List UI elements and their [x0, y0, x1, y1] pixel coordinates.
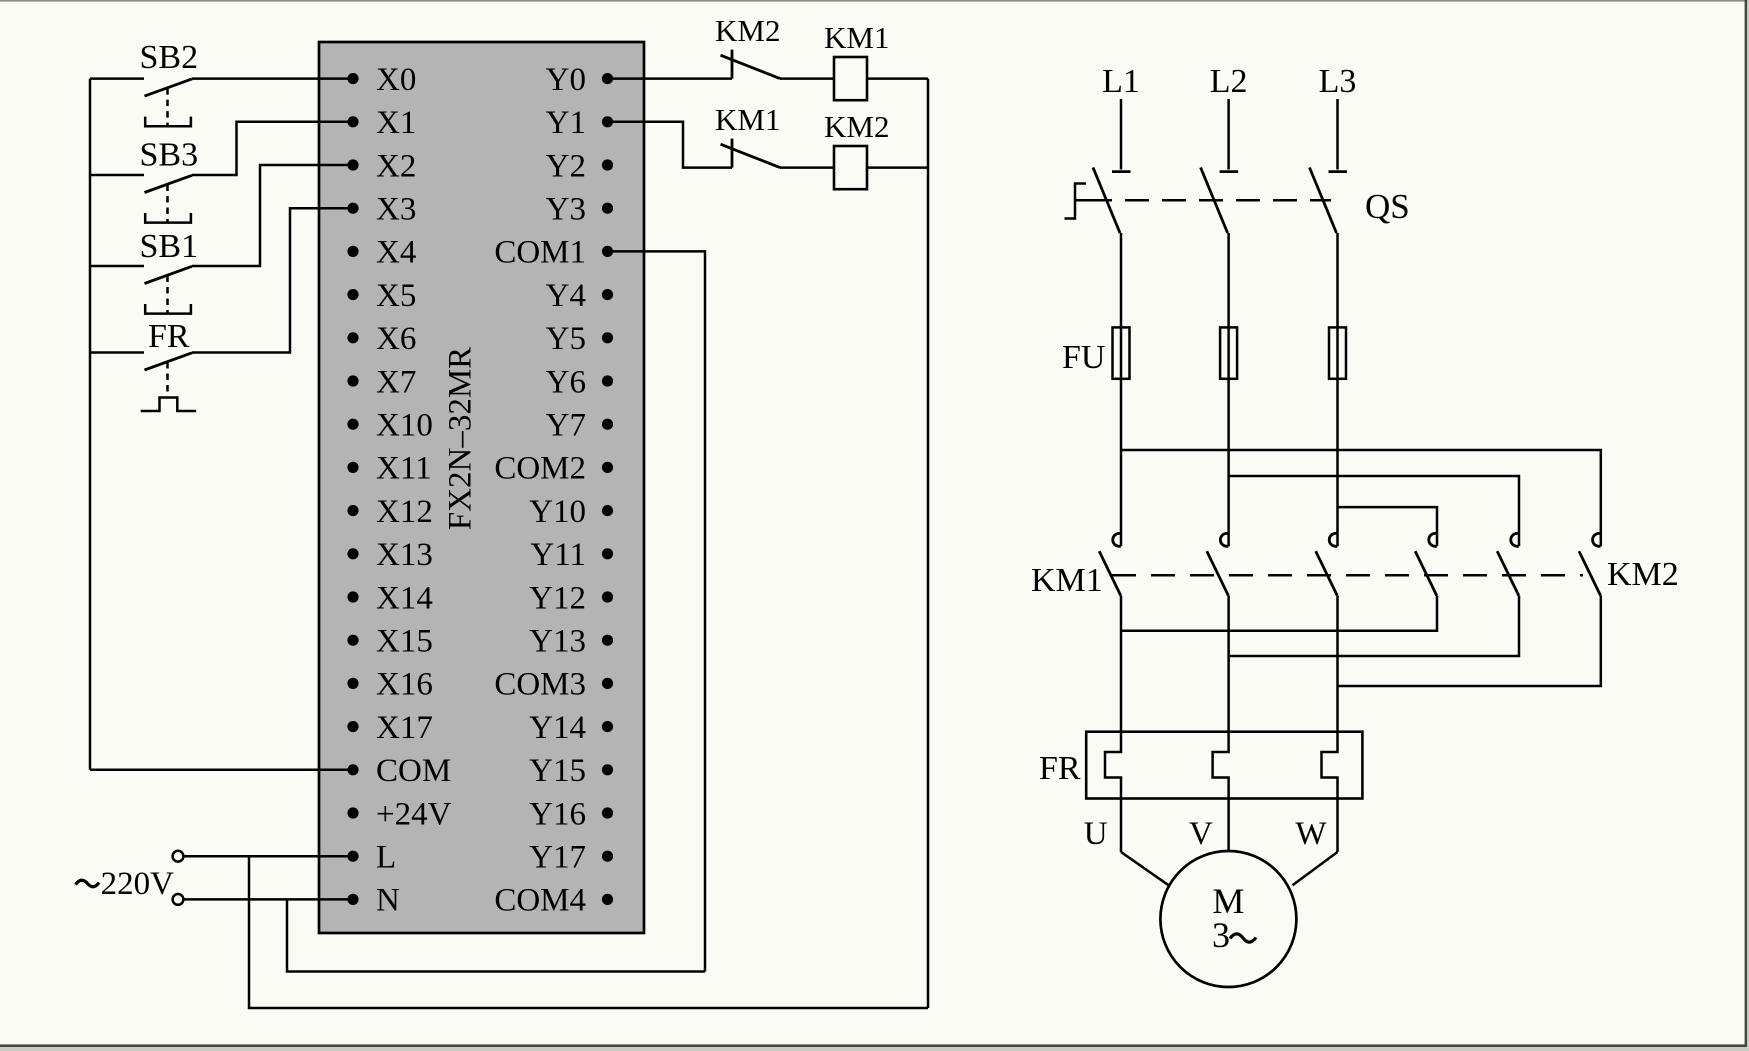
PLC input pin COM	[347, 764, 358, 775]
svg-text:X16: X16	[376, 667, 433, 703]
pushbutton SB3 (NO)	[90, 174, 144, 177]
PLC input pin X13	[347, 548, 358, 559]
svg-text:X2: X2	[376, 148, 416, 184]
svg-text:FR: FR	[1039, 750, 1081, 787]
PLC input pin X6	[347, 332, 358, 343]
right gray strip	[1747, 0, 1749, 1047]
svg-text:FR: FR	[148, 318, 190, 355]
wire FR to X3	[192, 208, 353, 352]
svg-text:Y1: Y1	[546, 105, 586, 141]
wire N branch down	[287, 899, 705, 971]
svg-text:Y4: Y4	[546, 278, 586, 314]
wire Y0 to KM2 contact	[608, 77, 733, 80]
svg-text:Y15: Y15	[529, 753, 586, 789]
wire L2 to KM2 pole2	[1229, 476, 1519, 546]
wire KM2 pole 1 to phase column	[1121, 596, 1437, 631]
fuse FU pole 2	[1220, 327, 1237, 378]
svg-text:L: L	[376, 840, 396, 876]
contactor KM2 main contact pole 3	[1593, 533, 1601, 546]
PLC output pin Y17	[602, 851, 613, 862]
supply terminal upper	[173, 851, 184, 862]
svg-text:X10: X10	[376, 408, 433, 444]
svg-text:Y16: Y16	[529, 796, 586, 832]
svg-text:KM1: KM1	[824, 20, 889, 55]
wire U to motor	[1121, 852, 1169, 885]
wire KM1 coil to right rail	[867, 77, 928, 80]
PLC output pin Y1	[602, 116, 613, 127]
wire phase 2 through FR heater	[1213, 596, 1229, 852]
right rail wire down to L rail	[927, 79, 930, 1008]
svg-text:L2: L2	[1210, 63, 1248, 100]
left vertical bus wire	[89, 79, 92, 770]
PLC output pin Y0	[602, 73, 613, 84]
svg-text:KM2: KM2	[715, 13, 780, 48]
contact KM2 (NC) in Y0 line	[731, 50, 734, 79]
wire phase 1 through FR heater	[1105, 596, 1121, 853]
contactor KM1 main contact pole 2	[1220, 533, 1228, 546]
wire L terminal to PLC L	[183, 855, 353, 858]
wire L1 to KM2 pole3	[1121, 450, 1601, 546]
bottom gray strip	[0, 1047, 1749, 1051]
svg-text:X11: X11	[376, 451, 432, 487]
switch QS linkage (dashed)	[1075, 199, 1112, 202]
PLC input pin +24V	[347, 807, 358, 818]
svg-text:X3: X3	[376, 192, 416, 228]
PLC input pin X3	[347, 203, 358, 214]
wire KM2 contact to KM1 coil	[780, 77, 834, 80]
PLC FX2N-32MR body	[319, 42, 644, 933]
svg-text:X14: X14	[376, 580, 433, 616]
svg-text:COM4: COM4	[494, 883, 586, 919]
wire KM2 pole 2 to phase column	[1229, 596, 1519, 657]
svg-text:COM3: COM3	[494, 667, 586, 703]
svg-text:FX2N–32MR: FX2N–32MR	[443, 347, 479, 530]
svg-text:SB3: SB3	[140, 137, 199, 174]
supply terminal lower	[173, 894, 184, 905]
PLC input pin L	[347, 851, 358, 862]
pushbutton SB2 (NO)	[90, 77, 144, 80]
svg-text:Y3: Y3	[546, 192, 586, 228]
svg-text:Y10: Y10	[529, 494, 586, 530]
svg-text:X17: X17	[376, 710, 433, 746]
contactor KM1 main contact pole 3	[1329, 533, 1337, 546]
PLC output pin COM1	[602, 246, 613, 257]
phase L1 incoming wire	[1120, 99, 1123, 170]
switch QS pole 2 blade	[1201, 168, 1228, 234]
PLC output pin Y12	[602, 591, 613, 602]
switch QS pole 1 blade	[1093, 168, 1120, 234]
svg-text:KM2: KM2	[824, 109, 889, 144]
wire Y1 to KM1 contact	[608, 122, 733, 168]
wire SB1 to X2	[192, 165, 353, 266]
pushbutton SB1 (NO)	[90, 265, 144, 268]
svg-text:U: U	[1084, 816, 1108, 852]
svg-text:Y0: Y0	[546, 62, 586, 98]
PLC input pin X10	[347, 419, 358, 430]
wire phase 3 through FR heater	[1322, 596, 1338, 853]
svg-text:Y11: Y11	[530, 537, 586, 573]
svg-text:KM1: KM1	[1031, 562, 1103, 599]
bottom border line	[0, 1044, 1747, 1047]
top border line	[0, 0, 1749, 2]
svg-text:Y7: Y7	[546, 408, 586, 444]
PLC input pin X2	[347, 159, 358, 170]
PLC input pin N	[347, 894, 358, 905]
PLC input pin X15	[347, 635, 358, 646]
right border line	[1745, 0, 1748, 1047]
svg-text:X5: X5	[376, 278, 416, 314]
svg-text:X0: X0	[376, 62, 416, 98]
wire KM2 coil to right rail	[867, 166, 928, 169]
svg-text:L3: L3	[1319, 63, 1357, 100]
svg-text:X13: X13	[376, 537, 433, 573]
PLC output pin Y10	[602, 505, 613, 516]
svg-text:FU: FU	[1062, 339, 1105, 376]
wire COM1 down to N rail	[608, 251, 706, 971]
PLC output pin Y5	[602, 332, 613, 343]
svg-text:X15: X15	[376, 624, 433, 660]
PLC output pin Y7	[602, 419, 613, 430]
svg-text:Y14: Y14	[529, 710, 586, 746]
PLC input pin X1	[347, 116, 358, 127]
svg-text:3: 3	[1212, 915, 1230, 955]
wire KM1 contact to KM2 coil	[780, 166, 834, 169]
coil KM1	[834, 57, 867, 100]
svg-text:W: W	[1295, 816, 1327, 852]
svg-text:COM2: COM2	[494, 451, 586, 487]
svg-text:X12: X12	[376, 494, 433, 530]
PLC input pin X12	[347, 505, 358, 516]
svg-text:V: V	[1189, 816, 1213, 852]
wire SB2 to X0	[192, 77, 353, 80]
svg-text:L1: L1	[1102, 63, 1140, 100]
phase wire 1 QS to KM1 contact	[1120, 233, 1123, 546]
PLC output pin COM4	[602, 894, 613, 905]
svg-text:SB2: SB2	[140, 39, 199, 76]
svg-text:SB1: SB1	[140, 228, 199, 265]
wire N terminal to PLC N	[183, 898, 353, 901]
svg-text:COM: COM	[376, 753, 451, 789]
phase L2 incoming wire	[1227, 99, 1230, 170]
svg-text:N: N	[376, 883, 400, 919]
wire W to motor	[1293, 852, 1338, 885]
wire KM2 pole 3 to phase column	[1338, 596, 1601, 687]
PLC input pin X0	[347, 73, 358, 84]
svg-text:KM1: KM1	[715, 102, 780, 137]
phase L3 incoming wire	[1336, 99, 1339, 170]
wire SB3 to X1	[192, 122, 353, 175]
PLC output pin Y16	[602, 807, 613, 818]
svg-text:Y17: Y17	[529, 840, 586, 876]
wire L3 to KM2 pole1	[1338, 507, 1438, 546]
svg-text:220V: 220V	[101, 866, 175, 902]
PLC output pin COM2	[602, 462, 613, 473]
PLC input pin X11	[347, 462, 358, 473]
svg-text:X4: X4	[376, 235, 416, 271]
fuse FU pole 1	[1113, 327, 1130, 378]
fuse FU pole 3	[1329, 327, 1346, 378]
PLC input pin X17	[347, 721, 358, 732]
svg-text:COM1: COM1	[494, 235, 586, 271]
contact KM1 (NC) in Y1 line	[731, 139, 734, 168]
PLC output pin COM3	[602, 678, 613, 689]
svg-text:X1: X1	[376, 105, 416, 141]
svg-text:QS: QS	[1365, 187, 1410, 226]
svg-text:X7: X7	[376, 364, 416, 400]
PLC output pin Y2	[602, 159, 613, 170]
svg-text:Y2: Y2	[546, 148, 586, 184]
PLC output pin Y3	[602, 203, 613, 214]
svg-text:Y6: Y6	[546, 364, 586, 400]
phase wire 3 QS to KM1 contact	[1336, 233, 1339, 546]
PLC output pin Y14	[602, 721, 613, 732]
phase wire 2 QS to KM1 contact	[1227, 233, 1230, 546]
contactor KM2 main contact pole 2	[1511, 533, 1519, 546]
contactor KM1 main contact pole 1	[1113, 533, 1121, 546]
switch QS pole 3 blade	[1310, 168, 1337, 234]
svg-text:Y13: Y13	[529, 624, 586, 660]
thermal relay contact FR (NC)	[90, 351, 144, 354]
PLC input pin X16	[347, 678, 358, 689]
svg-text:Y12: Y12	[529, 580, 586, 616]
motor M 3~	[1160, 851, 1296, 987]
PLC output pin Y4	[602, 289, 613, 300]
svg-text:KM2: KM2	[1607, 556, 1679, 593]
contactor KM2 main contact pole 1	[1429, 533, 1437, 546]
PLC output pin Y6	[602, 375, 613, 386]
PLC input pin X14	[347, 591, 358, 602]
PLC output pin Y13	[602, 635, 613, 646]
wire COM row	[90, 769, 353, 772]
PLC input pin X5	[347, 289, 358, 300]
PLC input pin X4	[347, 246, 358, 257]
PLC output pin Y15	[602, 764, 613, 775]
svg-text:Y5: Y5	[546, 321, 586, 357]
switch QS handle	[1065, 184, 1087, 219]
svg-text:X6: X6	[376, 321, 416, 357]
thermal relay FR box	[1086, 732, 1362, 799]
wire L branch down	[249, 856, 928, 1008]
KM main contacts linkage (dashed)	[1112, 574, 1583, 577]
PLC output pin Y11	[602, 548, 613, 559]
coil KM2	[834, 146, 867, 189]
svg-text:+24V: +24V	[376, 796, 452, 832]
PLC input pin X7	[347, 375, 358, 386]
